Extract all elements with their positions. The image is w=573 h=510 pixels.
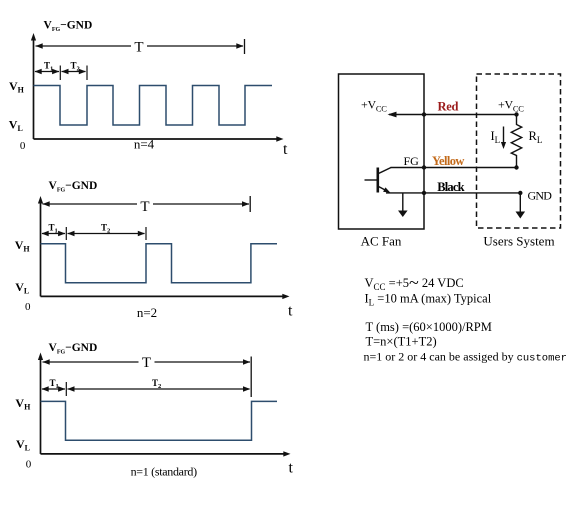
svg-text:AC Fan: AC Fan	[361, 234, 402, 249]
svg-text:VL: VL	[15, 280, 29, 296]
svg-text:T2: T2	[152, 378, 161, 390]
svg-text:VFG−GND: VFG−GND	[44, 20, 93, 34]
svg-text:0: 0	[20, 140, 26, 152]
svg-text:T: T	[142, 355, 151, 371]
svg-text:n=4: n=4	[134, 137, 155, 152]
svg-text:VL: VL	[16, 437, 30, 453]
svg-text:T1: T1	[49, 223, 58, 235]
svg-text:VH: VH	[15, 396, 31, 412]
svg-text:0: 0	[25, 301, 31, 313]
svg-text:T (ms) =(60×1000)/RPM: T (ms) =(60×1000)/RPM	[366, 320, 492, 334]
svg-text:VFG−GND: VFG−GND	[49, 342, 98, 356]
svg-text:n=1 or 2 or 4 can be assiged b: n=1 or 2 or 4 can be assiged by customer	[364, 350, 568, 365]
svg-text:t: t	[289, 460, 294, 477]
svg-text:n=2: n=2	[137, 305, 157, 320]
svg-text:VH: VH	[9, 79, 25, 95]
svg-text:+VCC: +VCC	[498, 98, 524, 114]
svg-text:0: 0	[26, 459, 32, 471]
svg-text:VH: VH	[15, 238, 31, 254]
svg-text:GND: GND	[528, 188, 553, 202]
svg-text:+VCC: +VCC	[361, 98, 387, 114]
svg-text:Yellow: Yellow	[432, 154, 464, 168]
svg-text:VL: VL	[9, 118, 23, 134]
svg-text:VFG−GND: VFG−GND	[49, 180, 98, 194]
svg-text:IL: IL	[491, 129, 501, 145]
svg-text:VCC =+5~ 24 VDC: VCC =+5~ 24 VDC	[365, 273, 464, 293]
svg-text:T: T	[140, 199, 149, 215]
svg-text:Red: Red	[438, 100, 459, 114]
svg-text:T=n×(T1+T2): T=n×(T1+T2)	[366, 335, 437, 349]
svg-text:n=1 (standard): n=1 (standard)	[131, 465, 198, 479]
svg-text:IL =10 mA (max) Typical: IL =10 mA (max) Typical	[365, 292, 492, 308]
svg-text:t: t	[288, 303, 293, 320]
svg-text:T: T	[134, 40, 143, 56]
svg-text:T2: T2	[101, 223, 110, 235]
svg-text:T1: T1	[44, 61, 53, 73]
svg-text:t: t	[283, 141, 288, 158]
svg-text:FG: FG	[404, 154, 420, 168]
svg-text:Black: Black	[437, 180, 464, 194]
svg-text:RL: RL	[529, 129, 543, 145]
svg-text:Users System: Users System	[483, 234, 554, 249]
svg-text:T1: T1	[50, 378, 59, 390]
svg-text:T2: T2	[71, 61, 80, 73]
